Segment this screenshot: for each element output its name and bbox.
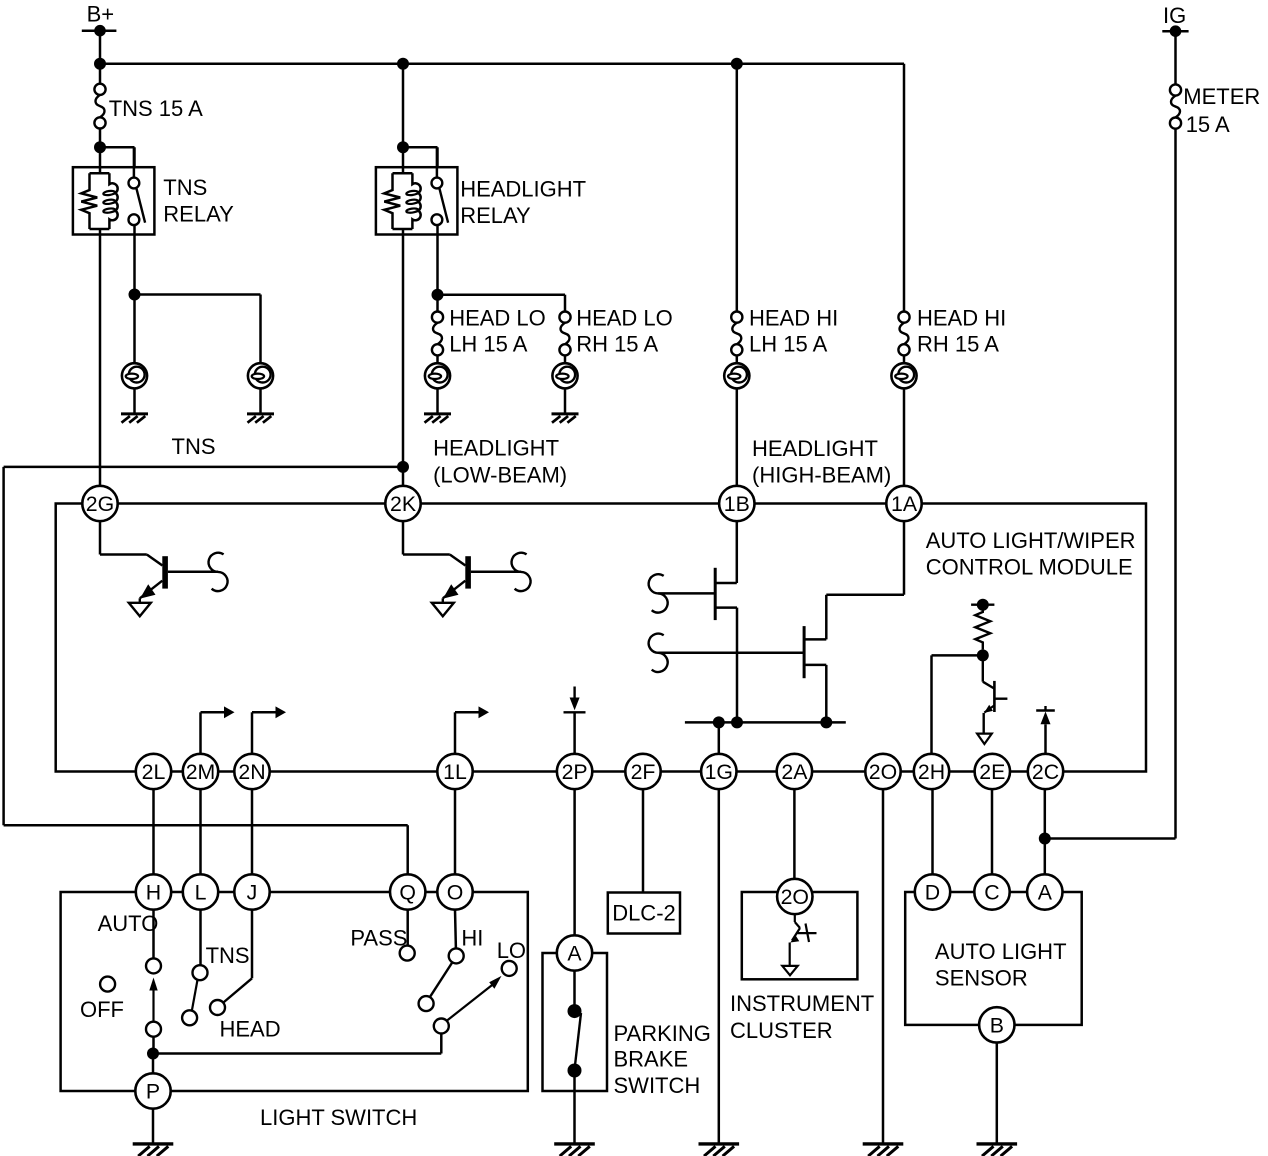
transistor headlight relay driver — [403, 522, 531, 617]
wire A to switch — [573, 971, 576, 1005]
label TNS RELAY — [163, 175, 234, 227]
fuse HEAD HI RH 15 A — [898, 305, 1006, 356]
wire H to auto contact — [152, 910, 155, 959]
wire pass feed along left edge — [4, 467, 408, 875]
mosfet low-beam driver Q2 — [649, 522, 904, 723]
svg-text:INSTRUMENT: INSTRUMENT — [730, 991, 874, 1016]
svg-text:TNS: TNS — [206, 943, 250, 968]
contact TNS lower — [182, 1010, 197, 1025]
node B+ battery terminal — [82, 1, 117, 36]
svg-text:RELAY: RELAY — [163, 201, 234, 226]
connector 2F — [625, 754, 660, 789]
svg-text:LH 15 A: LH 15 A — [749, 331, 828, 356]
junction light switch common — [147, 1048, 159, 1060]
junction HEAD HI LH feed — [731, 58, 743, 70]
svg-text:CLUSTER: CLUSTER — [730, 1018, 833, 1043]
ground HEAD LO RH — [552, 414, 579, 423]
wire IG feed to junction — [1045, 129, 1176, 839]
connector 2A — [777, 754, 812, 789]
fuse TNS 15 A — [94, 84, 203, 129]
svg-text:15 A: 15 A — [1186, 112, 1230, 137]
contact TNS upper — [193, 943, 250, 980]
wire O to HI contact — [454, 910, 457, 949]
label HEAD — [220, 1017, 281, 1042]
connector A sensor — [1027, 874, 1062, 909]
node IG ignition terminal — [1162, 3, 1188, 37]
svg-text:TNS: TNS — [172, 434, 216, 459]
connector 2L — [136, 754, 171, 789]
box INSTRUMENT CLUSTER — [742, 892, 858, 979]
connector 2M — [183, 754, 218, 789]
ground TNS LH — [121, 414, 148, 423]
connector O — [437, 874, 472, 909]
svg-text:H: H — [146, 881, 161, 905]
wire bus down to HEAD HI LH fuse — [736, 64, 739, 312]
ground parking brake — [554, 1144, 595, 1156]
junction resistor bottom — [977, 649, 989, 661]
indicator auto light warning — [782, 914, 816, 975]
wire L to TNS contact — [199, 910, 202, 966]
lamp HEADLIGHT HIGH RH — [891, 363, 916, 388]
wire 2M to L — [199, 789, 202, 875]
svg-text:RH 15 A: RH 15 A — [917, 331, 999, 356]
connector J — [234, 874, 269, 909]
label TNS lamps — [172, 434, 216, 459]
svg-text:HEAD: HEAD — [220, 1017, 281, 1042]
svg-text:HEAD LO: HEAD LO — [449, 305, 546, 330]
wire 2L to H — [152, 789, 155, 875]
wire headlight relay switch down — [436, 225, 439, 294]
wire TNS lamp branch — [135, 295, 261, 364]
lamp HEADLIGHT LOW RH — [552, 363, 577, 388]
wire common to dimmer — [153, 1034, 441, 1054]
transistor sensor threshold Q3 — [977, 655, 1007, 744]
ground HEAD LO LH — [424, 414, 451, 423]
svg-text:A: A — [1038, 881, 1053, 905]
svg-text:CONTROL MODULE: CONTROL MODULE — [926, 555, 1133, 580]
blade TNS — [192, 980, 198, 1011]
svg-text:METER: METER — [1183, 84, 1260, 109]
connector B sensor — [979, 1007, 1014, 1042]
connector 1B — [719, 486, 754, 521]
svg-text:PASS: PASS — [350, 925, 407, 950]
wire IG to meter fuse — [1174, 31, 1177, 84]
svg-text:2F: 2F — [631, 760, 656, 784]
svg-text:C: C — [984, 881, 999, 905]
wire 2C to sensor A — [1044, 789, 1047, 874]
wire B+ junction down to fuse — [99, 64, 102, 84]
svg-text:IG: IG — [1163, 3, 1186, 28]
wire bus corner down to HEAD HI RH fuse — [903, 64, 906, 312]
connector 2P — [557, 754, 592, 789]
wire J down — [251, 910, 254, 979]
blade dimmer HI — [430, 962, 453, 997]
resistor pull-up — [975, 605, 990, 650]
label HEADLIGHT (LOW-BEAM) — [433, 436, 567, 488]
transistor TNS relay driver — [100, 522, 228, 617]
wire TNS relay switch down — [133, 225, 136, 294]
lamp TNS RH — [248, 363, 273, 388]
connector 2G — [82, 486, 117, 521]
connector Q — [390, 874, 425, 909]
connector 1A — [886, 486, 921, 521]
wire 2P to parking brake A — [573, 789, 576, 935]
svg-text:TNS 15 A: TNS 15 A — [109, 96, 203, 121]
wire mosfet source bus — [685, 721, 846, 724]
wire bus to 1G — [718, 722, 721, 753]
box AUTO LIGHT/WIPER CONTROL MODULE — [56, 504, 1146, 772]
wire common to P — [152, 1054, 155, 1074]
box LIGHT SWITCH — [61, 892, 528, 1091]
wire B to ground — [996, 1043, 999, 1144]
ground module 2O — [863, 1144, 904, 1156]
contact PASS — [350, 925, 414, 960]
wire branch to headlight relay switch — [403, 147, 438, 167]
svg-text:TNS: TNS — [163, 175, 207, 200]
svg-text:B+: B+ — [87, 1, 115, 26]
svg-text:HEADLIGHT: HEADLIGHT — [433, 436, 559, 461]
contact parking brake upper — [568, 1004, 582, 1018]
wire B+ down to junction — [99, 31, 102, 64]
wire to HEAD LO LH fuse — [436, 295, 439, 312]
svg-text:LO: LO — [497, 938, 526, 963]
connector L — [183, 874, 218, 909]
connector 1G — [701, 754, 736, 789]
svg-text:2H: 2H — [918, 760, 945, 784]
arrow output at 1L — [455, 706, 489, 753]
svg-text:2P: 2P — [562, 760, 588, 784]
wire parking brake to ground — [573, 1071, 576, 1144]
svg-text:Q: Q — [399, 881, 416, 905]
wire headlight relay coil to 2K — [402, 235, 405, 486]
blade parking brake — [575, 1013, 581, 1068]
wire 2N to J — [251, 789, 254, 875]
svg-text:2M: 2M — [186, 760, 216, 784]
svg-text:SENSOR: SENSOR — [935, 965, 1028, 990]
wire 2H to sensor D — [931, 789, 934, 874]
svg-text:HEAD LO: HEAD LO — [576, 305, 673, 330]
junction headlight relay feed from bus — [397, 58, 409, 70]
node internal supply tick — [971, 599, 994, 611]
mosfet high-beam driver Q1 — [649, 522, 737, 723]
fuse METER 15 A — [1170, 84, 1260, 137]
svg-text:1L: 1L — [443, 760, 467, 784]
svg-text:PARKING: PARKING — [614, 1021, 711, 1046]
svg-text:2N: 2N — [238, 760, 265, 784]
connector D sensor — [915, 874, 950, 909]
svg-text:LH 15 A: LH 15 A — [449, 331, 528, 356]
connector 2O — [865, 754, 900, 789]
contact HEAD — [210, 1000, 225, 1015]
fuse HEAD HI LH 15 A — [731, 305, 838, 356]
svg-text:J: J — [247, 881, 258, 905]
junction pass feed on 2K line — [397, 461, 409, 473]
wire TNS lamp RH to ground — [259, 388, 262, 414]
lamp HEADLIGHT LOW LH — [425, 363, 450, 388]
arrow output at 2N — [252, 706, 286, 753]
svg-text:RELAY: RELAY — [460, 203, 531, 228]
relay HEADLIGHT RELAY — [376, 147, 458, 234]
svg-text:2O: 2O — [781, 885, 809, 909]
svg-text:AUTO: AUTO — [98, 911, 159, 936]
contact parking brake lower — [568, 1064, 582, 1078]
wire 2A to cluster 2O — [793, 789, 796, 879]
svg-text:HEADLIGHT: HEADLIGHT — [460, 177, 586, 202]
wire P to ground — [152, 1109, 155, 1144]
svg-text:LIGHT SWITCH: LIGHT SWITCH — [260, 1105, 417, 1130]
wire HEAD HI RH fuse to lamp — [903, 355, 906, 363]
contact OFF — [80, 977, 124, 1022]
wire lower contact to common — [152, 1037, 155, 1054]
contact LO — [497, 938, 526, 976]
blade J to HEAD contact — [223, 978, 252, 1003]
svg-text:2L: 2L — [142, 760, 166, 784]
wire HEAD LO RH fuse to lamp — [564, 355, 567, 363]
svg-text:OFF: OFF — [80, 997, 124, 1022]
contact auto upper — [146, 958, 161, 973]
arrow output at 2M — [201, 706, 235, 753]
svg-text:RH 15 A: RH 15 A — [576, 331, 658, 356]
junction bus Q2 source — [820, 716, 832, 728]
connector 1L — [437, 754, 472, 789]
junction HEAD LO feed — [432, 289, 444, 301]
wire resistor node to 2H — [932, 655, 983, 753]
junction bus Q1 source — [731, 716, 743, 728]
wire 2O to ground — [882, 789, 885, 1144]
svg-text:HEAD HI: HEAD HI — [917, 305, 1006, 330]
svg-text:B: B — [990, 1014, 1004, 1038]
connector 2H — [914, 754, 949, 789]
wire HEAD HI LH lamp to 1B — [736, 388, 739, 485]
svg-text:L: L — [195, 881, 207, 905]
arrow dimmer wiper — [447, 976, 501, 1021]
wire to TNS lamp LH — [133, 295, 136, 364]
wire HEAD LO LH fuse to lamp — [436, 355, 439, 363]
junction TNS lamps — [129, 289, 141, 301]
svg-text:2C: 2C — [1032, 760, 1059, 784]
contact auto lower — [146, 1022, 161, 1037]
contact dimmer common — [434, 1019, 449, 1034]
svg-text:HEAD HI: HEAD HI — [749, 305, 838, 330]
label HEADLIGHT RELAY — [460, 177, 586, 229]
junction TNS relay feed — [94, 141, 106, 153]
wire top bus B+ to HEAD HI RH — [100, 62, 904, 65]
lamp HEADLIGHT HIGH LH — [724, 363, 749, 388]
svg-text:A: A — [567, 942, 582, 966]
relay TNS RELAY — [73, 147, 154, 234]
label HEADLIGHT (HIGH-BEAM) — [752, 436, 891, 488]
contact HI — [449, 925, 484, 963]
label INSTRUMENT CLUSTER — [730, 991, 874, 1043]
arrow light switch wiper — [149, 978, 157, 1022]
arrow output at 2C — [1036, 706, 1055, 754]
svg-text:2A: 2A — [781, 760, 808, 784]
svg-text:DLC-2: DLC-2 — [612, 901, 676, 926]
lamp TNS LH — [122, 363, 147, 388]
box PARKING BRAKE SWITCH — [543, 953, 608, 1091]
svg-text:SWITCH: SWITCH — [614, 1073, 701, 1098]
label AUTO LIGHT SENSOR — [935, 939, 1067, 991]
box AUTO LIGHT SENSOR — [905, 892, 1081, 1025]
box DLC-2 — [608, 893, 680, 934]
svg-text:AUTO LIGHT/WIPER: AUTO LIGHT/WIPER — [926, 528, 1136, 553]
ground sensor B — [977, 1144, 1018, 1156]
svg-text:2O: 2O — [869, 760, 897, 784]
wire 1G to ground — [718, 789, 721, 1144]
wire fuse to TNS relay — [99, 129, 102, 148]
wire HEAD LO RH lamp to ground — [564, 388, 567, 414]
label AUTO LIGHT/WIPER CONTROL MODULE — [926, 528, 1136, 580]
wire 1L to O — [454, 789, 457, 875]
svg-text:1G: 1G — [705, 760, 733, 784]
svg-text:(LOW-BEAM): (LOW-BEAM) — [433, 463, 567, 488]
junction B+ bus — [94, 58, 106, 70]
wire Q to PASS contact — [406, 910, 409, 946]
connector 2E — [975, 754, 1010, 789]
ground TNS RH — [247, 414, 274, 423]
fuse HEAD LO LH 15 A — [432, 305, 546, 356]
fuse HEAD LO RH 15 A — [559, 305, 672, 356]
ground 1G — [699, 1144, 740, 1156]
svg-text:BRAKE: BRAKE — [614, 1047, 689, 1072]
ground light switch — [133, 1144, 174, 1156]
junction IG joins 2C-A wire — [1039, 833, 1051, 845]
svg-text:HI: HI — [461, 925, 483, 950]
svg-text:2E: 2E — [979, 760, 1005, 784]
connector 2K — [385, 486, 420, 521]
label AUTO — [98, 911, 159, 936]
svg-text:1B: 1B — [724, 492, 750, 516]
svg-text:D: D — [925, 881, 940, 905]
svg-text:2G: 2G — [86, 492, 114, 516]
connector P — [135, 1073, 170, 1108]
junction headlight relay branch — [397, 141, 409, 153]
wire 2F to DLC-2 — [642, 789, 645, 892]
svg-text:HEADLIGHT: HEADLIGHT — [752, 436, 878, 461]
connector 2O instrument cluster — [777, 879, 812, 914]
connector H — [136, 874, 171, 909]
svg-text:P: P — [146, 1080, 160, 1104]
wire HEAD LO RH branch — [438, 295, 566, 312]
svg-text:O: O — [447, 881, 464, 905]
wire HEAD LO LH lamp to ground — [436, 388, 439, 414]
svg-text:1A: 1A — [891, 492, 918, 516]
svg-text:AUTO LIGHT: AUTO LIGHT — [935, 939, 1067, 964]
connector C sensor — [974, 874, 1009, 909]
svg-text:(HIGH-BEAM): (HIGH-BEAM) — [752, 462, 891, 487]
connector 2N — [234, 754, 269, 789]
arrow input at 2P — [564, 687, 586, 754]
contact dimmer mid — [419, 996, 434, 1011]
wire HEAD HI RH lamp to 1A — [903, 388, 906, 485]
wire branch to TNS relay switch — [100, 147, 135, 167]
label PARKING BRAKE SWITCH — [614, 1021, 711, 1098]
wire 2E to sensor C — [991, 789, 994, 874]
svg-text:2K: 2K — [390, 492, 416, 516]
label LIGHT SWITCH — [260, 1105, 417, 1130]
wire TNS lamp LH to ground — [133, 388, 136, 414]
junction bus 1G — [713, 716, 725, 728]
wire bus down to headlight relay — [402, 64, 405, 148]
connector 2C — [1028, 754, 1063, 789]
wire TNS relay coil to 2G — [99, 235, 102, 486]
connector A parking brake — [557, 935, 592, 970]
wire HEAD HI LH fuse to lamp — [736, 355, 739, 363]
